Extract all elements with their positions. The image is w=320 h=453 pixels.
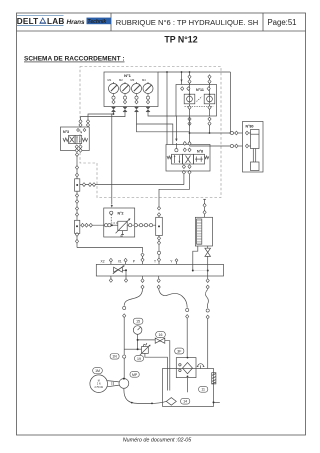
svg-text:M2: M2 <box>119 78 123 82</box>
svg-text:M4: M4 <box>142 78 146 82</box>
svg-text:16: 16 <box>159 333 163 337</box>
svg-text:N°11: N°11 <box>196 88 204 92</box>
svg-text:RUBRIQUE N°6 : TP HYDRAULIQUE: RUBRIQUE N°6 : TP HYDRAULIQUE. SH <box>116 18 258 27</box>
svg-text:Hrans: Hrans <box>67 19 86 26</box>
svg-text:1M: 1M <box>95 369 100 373</box>
svg-text:MP: MP <box>132 373 138 377</box>
svg-text:Page:51: Page:51 <box>267 18 296 27</box>
svg-text:N°80: N°80 <box>246 125 254 129</box>
svg-text:N°1: N°1 <box>124 73 131 78</box>
svg-text:19: 19 <box>137 357 141 361</box>
svg-text:2 N: 2 N <box>97 384 101 386</box>
svg-text:DELT: DELT <box>17 17 39 26</box>
svg-text:3F: 3F <box>177 349 181 353</box>
svg-text:T: T <box>154 260 156 264</box>
svg-text:15: 15 <box>136 320 140 324</box>
svg-text:M1: M1 <box>108 78 112 82</box>
svg-text:14: 14 <box>183 400 187 404</box>
svg-text:X2: X2 <box>101 260 105 264</box>
svg-text:N°8: N°8 <box>197 149 203 153</box>
svg-text:X1: X1 <box>118 260 122 264</box>
svg-text:TP N°12: TP N°12 <box>164 34 197 44</box>
svg-text:1N: 1N <box>112 355 117 359</box>
svg-text:P: P <box>133 260 136 264</box>
svg-text:N°2: N°2 <box>118 212 124 216</box>
svg-text:LAB: LAB <box>47 17 64 26</box>
svg-text:2.75 kW: 2.75 kW <box>94 387 103 389</box>
svg-text:11: 11 <box>201 388 205 392</box>
svg-text:Technik: Technik <box>88 19 107 25</box>
svg-text:N°3: N°3 <box>63 130 69 134</box>
svg-text:Y: Y <box>170 260 173 264</box>
svg-text:Numéro de document :02-05: Numéro de document :02-05 <box>123 438 193 444</box>
svg-text:SCHEMA DE RACCORDEMENT :: SCHEMA DE RACCORDEMENT : <box>24 56 125 63</box>
svg-text:M: M <box>98 380 100 382</box>
svg-text:M3: M3 <box>131 78 135 82</box>
